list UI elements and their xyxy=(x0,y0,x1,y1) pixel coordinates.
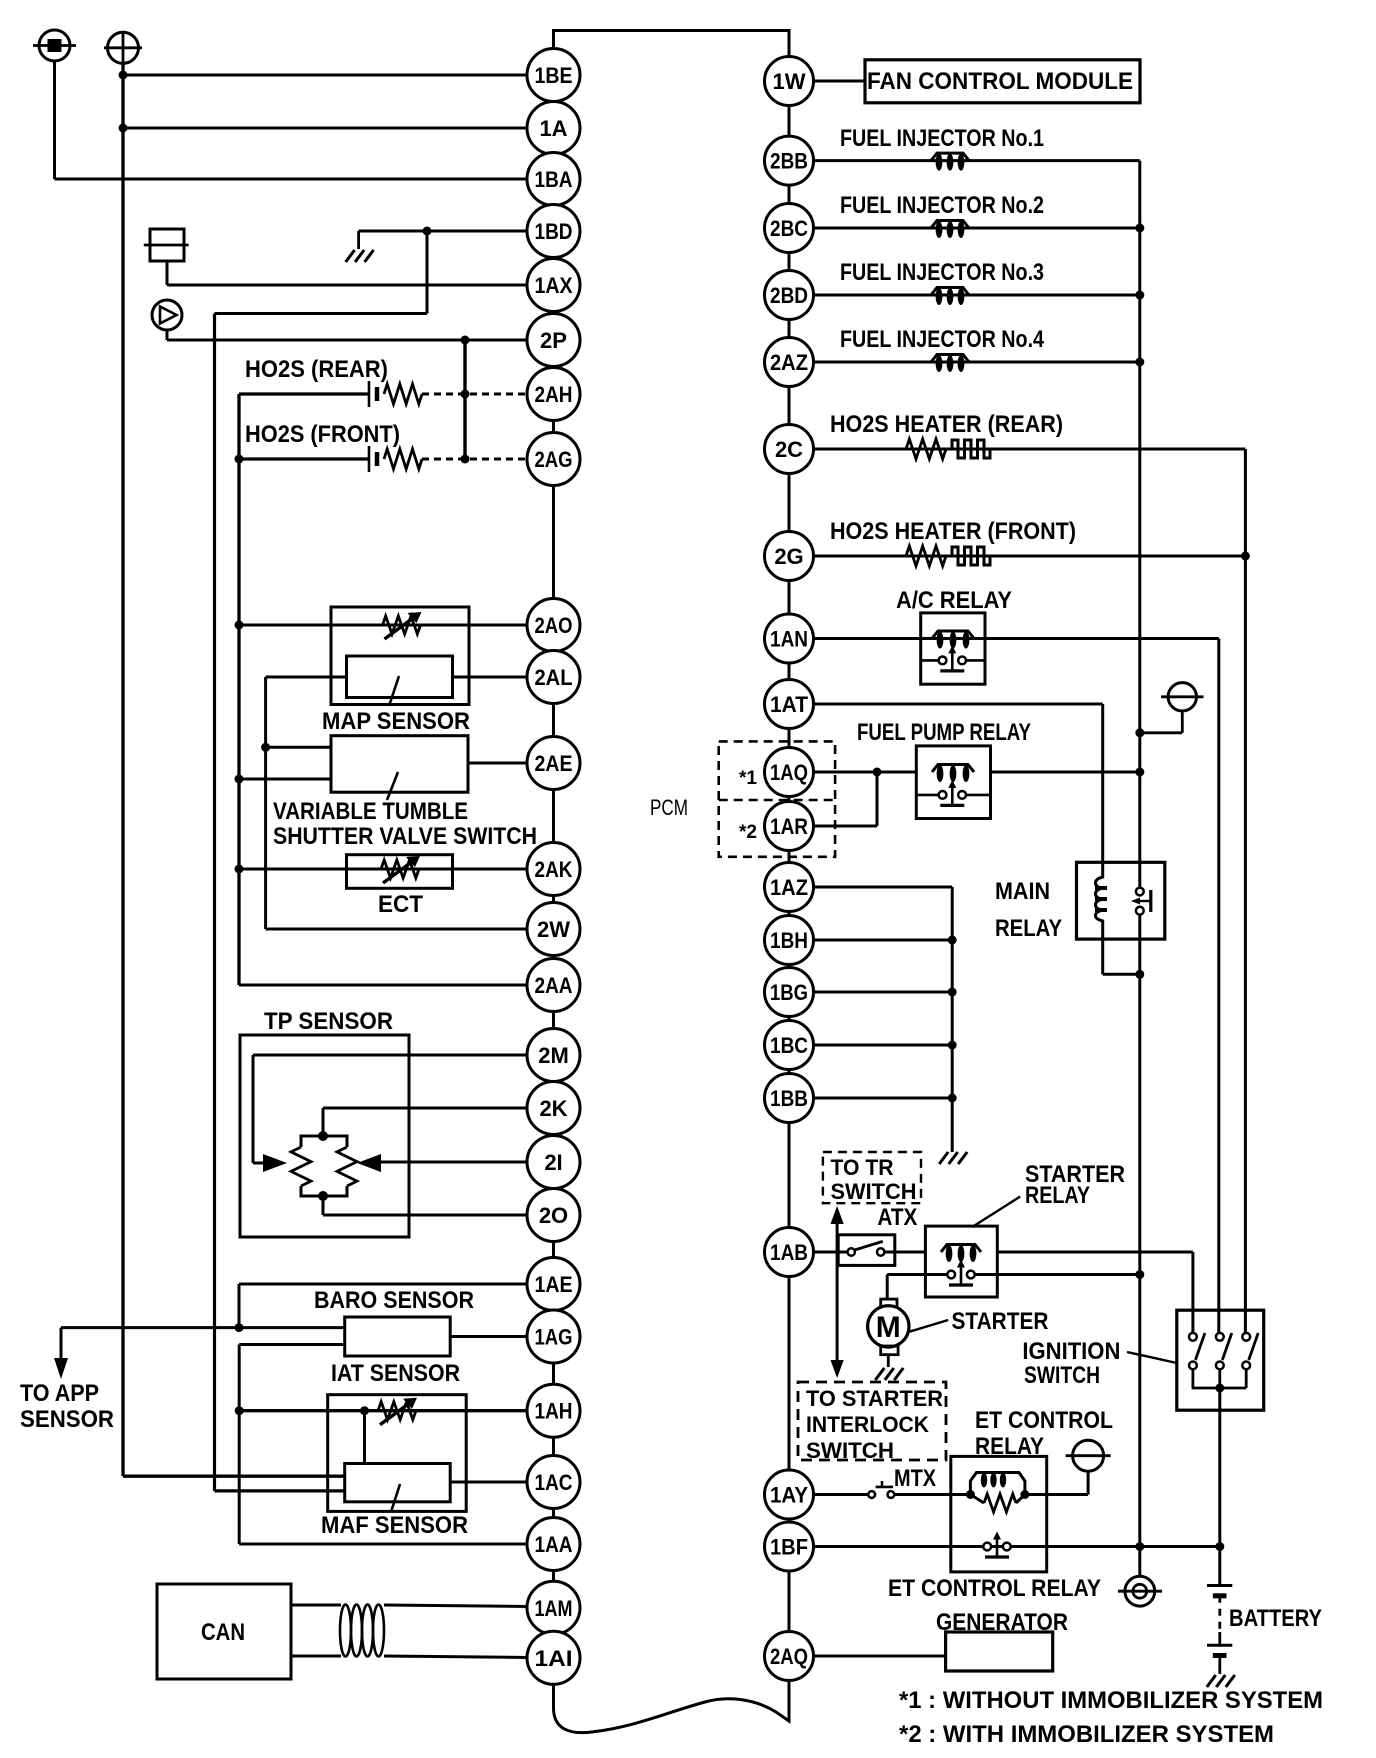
wire starter relay coil to ignition xyxy=(997,1252,1193,1333)
PCM pin 2AK xyxy=(527,843,580,896)
wire 2P xyxy=(167,330,528,340)
svg-text:M: M xyxy=(876,1311,901,1344)
wire 1A xyxy=(123,127,528,130)
svg-text:FUEL INJECTOR No.4: FUEL INJECTOR No.4 xyxy=(840,326,1045,353)
PCM pin 2AQ xyxy=(765,1632,814,1681)
sensor HO2S rear cell xyxy=(239,381,422,407)
PCM pin 1BB xyxy=(765,1074,814,1123)
svg-text:1AB: 1AB xyxy=(770,1240,808,1265)
svg-text:INTERLOCK: INTERLOCK xyxy=(806,1412,929,1437)
svg-text:FAN CONTROL MODULE: FAN CONTROL MODULE xyxy=(867,68,1133,95)
battery BATT xyxy=(1207,1586,1232,1675)
junction dot 1BF/battery xyxy=(1215,1542,1224,1551)
wire 2AO xyxy=(239,624,528,627)
CAN module box xyxy=(157,1584,291,1679)
junction dot ET coil right xyxy=(1020,1490,1029,1499)
svg-text:SENSOR: SENSOR xyxy=(20,1406,114,1433)
ET relay coil and resistor xyxy=(970,1473,1025,1513)
junction dot IAT/MAF xyxy=(360,1406,369,1415)
junction dot fuel pump/B+ bus xyxy=(1135,768,1144,777)
thermistor ECT xyxy=(381,856,420,883)
PCM pin 1A xyxy=(527,102,580,155)
wire 2AG dashed xyxy=(422,458,528,461)
svg-text:1AN: 1AN xyxy=(770,627,808,652)
junction dot ignition common xyxy=(1215,1384,1224,1393)
junction dot bus/VTSV xyxy=(235,775,244,784)
svg-text:2P: 2P xyxy=(540,328,567,353)
MAF sensor inner box xyxy=(345,1464,451,1513)
dashed option box *1 around 1AQ xyxy=(719,741,835,856)
PCM pin 2C xyxy=(765,425,814,474)
junction dot 2W branch xyxy=(261,743,270,752)
svg-text:RELAY: RELAY xyxy=(995,915,1062,942)
junction dot 1AE/BARO xyxy=(235,1323,244,1332)
PCM pin 1AT xyxy=(765,680,814,729)
svg-text:1A: 1A xyxy=(539,116,567,141)
svg-text:*1 : WITHOUT IMMOBILIZER SYSTE: *1 : WITHOUT IMMOBILIZER SYSTEM xyxy=(899,1687,1323,1714)
arrow down to starter interlock switch xyxy=(831,1360,844,1378)
wire 1AT xyxy=(814,704,1103,863)
injector coil FUEL INJECTOR No.4 xyxy=(814,355,1140,373)
callout ignition switch xyxy=(1127,1352,1177,1363)
svg-text:PCM: PCM xyxy=(650,795,688,820)
PCM pin 1BC xyxy=(765,1021,814,1070)
junction dot 1BF/B+ bus xyxy=(1135,1542,1144,1551)
junction dot 1BE/bus xyxy=(119,71,128,80)
TP sensor box xyxy=(240,1035,409,1237)
PCM pin 1BE xyxy=(527,49,580,102)
ECT sensor box xyxy=(347,855,453,889)
svg-text:ET CONTROL: ET CONTROL xyxy=(975,1407,1113,1434)
battery feed symbol ET relay xyxy=(1066,1440,1111,1471)
svg-text:2O: 2O xyxy=(539,1203,568,1228)
PCM pin 1BF xyxy=(765,1522,814,1571)
fuel pump relay U2 xyxy=(916,746,1140,819)
PCM pin 2AA xyxy=(527,959,580,1012)
injector coil FUEL INJECTOR No.3 xyxy=(814,288,1140,306)
junction dot main relay/B+ bus xyxy=(1135,970,1144,979)
MAP sensor inner box xyxy=(347,656,453,706)
svg-text:FUEL PUMP RELAY: FUEL PUMP RELAY xyxy=(857,719,1031,746)
dashed box TO STARTER INTERLOCK SWITCH xyxy=(798,1382,946,1460)
PCM pin 1AY xyxy=(765,1470,814,1519)
wire 1BH xyxy=(814,939,953,942)
svg-text:HO2S (FRONT): HO2S (FRONT) xyxy=(245,421,400,448)
PCM pin 2P xyxy=(527,314,580,367)
svg-text:ET CONTROL RELAY: ET CONTROL RELAY xyxy=(888,1575,1101,1602)
PCM pin 1AH xyxy=(527,1384,580,1437)
battery feed symbol B+ right xyxy=(104,32,142,63)
wire 1BA xyxy=(55,178,528,181)
wire 1AX xyxy=(167,261,528,285)
fan control module box xyxy=(865,60,1140,103)
svg-text:2AE: 2AE xyxy=(535,751,573,776)
svg-text:*1: *1 xyxy=(739,768,757,789)
dashed option box divider xyxy=(719,799,835,802)
svg-text:FUEL INJECTOR No.1: FUEL INJECTOR No.1 xyxy=(840,125,1044,152)
svg-text:2AZ: 2AZ xyxy=(770,350,808,375)
svg-text:SWITCH: SWITCH xyxy=(1024,1362,1100,1389)
thermistor IAT xyxy=(378,1398,417,1425)
svg-text:2G: 2G xyxy=(774,544,803,569)
svg-text:BARO SENSOR: BARO SENSOR xyxy=(314,1287,474,1314)
TP potentiometer xyxy=(291,1136,357,1196)
svg-text:1W: 1W xyxy=(773,69,806,94)
junction dot starter contact/B+ bus xyxy=(1135,1270,1144,1279)
svg-text:2AK: 2AK xyxy=(535,857,573,882)
svg-text:2K: 2K xyxy=(539,1096,567,1121)
svg-text:2BD: 2BD xyxy=(770,283,808,308)
PCM pin 2BC xyxy=(765,204,814,253)
wire PCM ground bus xyxy=(951,887,954,1152)
svg-text:1AZ: 1AZ xyxy=(770,875,808,900)
main relay U3 xyxy=(1077,862,1165,939)
ignition switch box xyxy=(1177,1310,1264,1410)
PCM pin 1BA xyxy=(527,153,580,206)
heater HO2S rear xyxy=(814,439,1246,459)
junction dot TP bottom node xyxy=(318,1191,328,1201)
svg-text:1AG: 1AG xyxy=(535,1325,573,1350)
svg-text:IGNITION: IGNITION xyxy=(1022,1338,1120,1365)
junction dot ET coil left xyxy=(966,1490,975,1499)
PCM pin 1W xyxy=(765,57,814,106)
wire BARO lower to 1AA xyxy=(239,1345,527,1545)
svg-text:FUEL INJECTOR No.3: FUEL INJECTOR No.3 xyxy=(840,259,1044,286)
svg-text:A/C RELAY: A/C RELAY xyxy=(896,587,1012,614)
svg-text:1AA: 1AA xyxy=(535,1532,573,1557)
wire 1AZ xyxy=(814,886,953,889)
wire PCM left connector chain xyxy=(552,49,555,1684)
ground chassis battery xyxy=(1207,1675,1235,1687)
ignition switch poles xyxy=(1189,1333,1258,1388)
svg-text:1BG: 1BG xyxy=(770,980,808,1005)
injector coil FUEL INJECTOR No.1 xyxy=(814,153,1140,171)
junction dot 1BH xyxy=(948,936,957,945)
PCM pin 1BH xyxy=(765,916,814,965)
wire 2AQ xyxy=(813,1655,946,1658)
callout starter xyxy=(909,1320,948,1332)
junction dot 1BD branch xyxy=(423,227,432,236)
heater HO2S front xyxy=(814,546,1246,566)
wire 2AK xyxy=(239,868,528,871)
PCM pin 2AL xyxy=(527,651,580,704)
PCM pin 2M xyxy=(527,1029,580,1082)
svg-text:1AX: 1AX xyxy=(535,273,573,298)
junction dot bus/2AK xyxy=(235,865,244,874)
svg-text:RELAY: RELAY xyxy=(1025,1182,1090,1209)
wire sensor ground bus xyxy=(237,394,240,985)
PCM pin 2AZ xyxy=(765,338,814,387)
svg-text:SWITCH: SWITCH xyxy=(806,1438,894,1463)
wire 1AC xyxy=(450,1481,527,1484)
connector symbol on 1AX line xyxy=(144,229,189,261)
PCM pin 1AZ xyxy=(765,863,814,912)
svg-text:VARIABLE TUMBLE: VARIABLE TUMBLE xyxy=(273,798,468,825)
svg-text:1AC: 1AC xyxy=(535,1470,573,1495)
svg-text:1BB: 1BB xyxy=(770,1086,808,1111)
wire 2K xyxy=(323,1108,528,1136)
svg-text:2AO: 2AO xyxy=(535,613,573,638)
wire 1BG xyxy=(814,991,953,994)
wire 1BE xyxy=(123,74,528,77)
junction dot 1BB xyxy=(948,1094,957,1103)
svg-text:2AH: 2AH xyxy=(535,382,573,407)
svg-text:TO APP: TO APP xyxy=(20,1380,99,1407)
svg-text:MAP SENSOR: MAP SENSOR xyxy=(322,708,470,735)
wire 2AA xyxy=(239,984,528,987)
svg-text:1AM: 1AM xyxy=(535,1596,573,1621)
wire ET relay to feed symbol xyxy=(1025,1470,1088,1495)
wire starter relay contact to B+ bus xyxy=(974,1273,1139,1276)
ATX switch box xyxy=(838,1235,895,1266)
wire 1AI to 2AQ curve xyxy=(554,1681,790,1733)
wire 2AE xyxy=(468,762,528,765)
PCM pin 2BD xyxy=(765,271,814,320)
PCM pin 1AM xyxy=(527,1581,580,1634)
junction dot injector 3/B+ bus xyxy=(1135,291,1144,300)
wire 2AL xyxy=(453,676,528,679)
wire IAT to MAF xyxy=(363,1411,366,1464)
svg-text:SWITCH: SWITCH xyxy=(831,1179,917,1204)
PCM pin 1AX xyxy=(527,259,580,312)
wire 1AR xyxy=(814,772,878,826)
ground chassis starter xyxy=(875,1368,903,1380)
svg-text:1BA: 1BA xyxy=(535,167,573,192)
PCM pin 1AB xyxy=(765,1228,814,1277)
A/C relay contact xyxy=(939,645,966,671)
wire 2I xyxy=(381,1161,528,1164)
dashed box TO TR SWITCH xyxy=(823,1152,921,1203)
wire MTX to ET relay xyxy=(894,1493,970,1496)
junction dot 1AQ/1AR xyxy=(873,768,882,777)
injector coil FUEL INJECTOR No.2 xyxy=(814,221,1140,239)
arrow up to TR switch xyxy=(831,1206,844,1224)
fuel pump relay contact xyxy=(939,780,966,806)
IAT sensor outer box xyxy=(328,1395,467,1512)
PCM pin 1AN xyxy=(765,614,814,663)
shield ground symbol B+ bus end xyxy=(1118,1576,1162,1606)
wire HO2S signal vertical xyxy=(463,340,466,459)
svg-text:ATX: ATX xyxy=(877,1204,917,1231)
starter relay U4 xyxy=(925,1226,997,1297)
svg-text:1BF: 1BF xyxy=(770,1535,808,1560)
svg-text:1AQ: 1AQ xyxy=(770,760,808,785)
PCM pin 1AQ xyxy=(765,748,814,797)
junction dot injector 2/B+ bus xyxy=(1135,224,1144,233)
svg-text:ECT: ECT xyxy=(378,891,423,918)
svg-text:2C: 2C xyxy=(775,437,803,462)
svg-text:1BE: 1BE xyxy=(535,63,573,88)
PCM pin 2AE xyxy=(527,737,580,790)
junction dot B+ bus/feed symbol xyxy=(1135,728,1144,737)
wire 1AB xyxy=(812,1251,848,1254)
wire 1AY xyxy=(814,1493,869,1496)
junction dot 1AH branch xyxy=(235,1406,244,1415)
battery feed symbol near main relay xyxy=(1140,683,1204,733)
A/C relay U1 xyxy=(921,613,985,684)
PCM pin 2I xyxy=(527,1136,580,1189)
svg-text:1AR: 1AR xyxy=(770,814,808,839)
wire main relay coil to bus xyxy=(1103,939,1140,974)
wire 1BF xyxy=(812,1545,1220,1548)
battery feed symbol B+ left xyxy=(33,30,76,61)
ET relay contact xyxy=(983,1532,1010,1558)
wire 1AE xyxy=(239,1284,528,1328)
svg-text:MAF SENSOR: MAF SENSOR xyxy=(321,1512,468,1539)
junction dot TP top node xyxy=(318,1131,328,1141)
junction dot 2AG xyxy=(461,455,470,464)
wire to APP sensor xyxy=(61,1328,239,1360)
junction dot bus/2AO xyxy=(235,621,244,630)
svg-text:MTX: MTX xyxy=(894,1465,936,1492)
wire 2O xyxy=(323,1196,528,1215)
svg-text:TO STARTER: TO STARTER xyxy=(806,1386,943,1411)
wire 1AG xyxy=(450,1335,527,1338)
variable tumble shutter valve switch box xyxy=(331,736,468,800)
svg-text:HO2S (REAR): HO2S (REAR) xyxy=(245,356,388,383)
svg-text:2AQ: 2AQ xyxy=(770,1644,808,1669)
pump symbol on 2P line xyxy=(152,300,182,330)
junction dot bus/HO2S front xyxy=(235,455,244,464)
svg-text:2M: 2M xyxy=(538,1043,569,1068)
svg-text:FUEL INJECTOR No.2: FUEL INJECTOR No.2 xyxy=(840,192,1044,219)
svg-text:2W: 2W xyxy=(537,917,570,942)
wire 2W xyxy=(266,928,528,931)
starter relay contact xyxy=(947,1260,974,1286)
PCM pin 1AA xyxy=(527,1518,580,1571)
wire vertical bus from B+ down to MAF sensor xyxy=(123,63,345,1476)
wire 2M xyxy=(253,1055,528,1163)
wire VTSV lower feed xyxy=(239,778,331,781)
PCM pin 1AE xyxy=(527,1258,580,1311)
svg-text:2BC: 2BC xyxy=(770,216,808,241)
wire 1BD xyxy=(359,230,528,233)
svg-text:TP SENSOR: TP SENSOR xyxy=(264,1008,393,1035)
wire ignition feed right vertical xyxy=(1244,449,1247,1333)
svg-text:2AG: 2AG xyxy=(535,447,573,472)
starter motor M xyxy=(868,1299,909,1367)
wire B+ left down to 1BA wire xyxy=(53,61,56,179)
PCM pin 1AC xyxy=(527,1456,580,1509)
svg-text:TO TR: TO TR xyxy=(831,1155,894,1180)
svg-text:BATTERY: BATTERY xyxy=(1229,1605,1322,1632)
MTX switch xyxy=(868,1481,894,1498)
wire 1BD branch to left vertical bus xyxy=(215,231,428,1491)
svg-text:2BB: 2BB xyxy=(770,149,808,174)
svg-text:CAN: CAN xyxy=(201,1619,245,1646)
svg-text:2AA: 2AA xyxy=(535,973,573,998)
PCM pin 2AH xyxy=(527,368,580,421)
wire VTSV upper feed xyxy=(266,746,331,749)
PCM pin 1AR xyxy=(765,802,814,851)
junction dot 1A/bus xyxy=(119,124,128,133)
PCM pin 1AG xyxy=(527,1310,580,1363)
arrow TP wiper right xyxy=(357,1154,381,1172)
wire PCM right connector chain xyxy=(788,58,791,1680)
svg-text:STARTER: STARTER xyxy=(952,1308,1049,1335)
svg-text:IAT SENSOR: IAT SENSOR xyxy=(331,1360,460,1387)
junction dot HO2S front/ignition feed xyxy=(1241,552,1250,561)
wire TR switch tap xyxy=(836,1222,839,1360)
PCM pin 2AG xyxy=(527,433,580,486)
junction dot 2P/HO2S vertical xyxy=(461,336,470,345)
wire MAP inner to 2W xyxy=(266,677,347,929)
wire 1BB xyxy=(814,1097,953,1100)
wire main B+ bus vertical xyxy=(1138,161,1141,1577)
wire BARO upper feed xyxy=(239,1326,345,1329)
junction dot 1BC xyxy=(948,1041,957,1050)
wire ignition feed mid vertical xyxy=(1217,639,1220,1333)
arrow TP wiper left xyxy=(263,1154,287,1172)
ET control relay box xyxy=(951,1456,1047,1572)
svg-text:*2: *2 xyxy=(739,822,757,843)
callout starter relay xyxy=(972,1197,1020,1228)
generator box xyxy=(946,1632,1053,1671)
BARO sensor box xyxy=(345,1317,451,1356)
ground chassis 1BD xyxy=(346,231,374,262)
svg-text:SHUTTER VALVE SWITCH: SHUTTER VALVE SWITCH xyxy=(273,823,537,850)
ATX switch xyxy=(848,1241,885,1255)
MAP sensor outer box xyxy=(331,607,469,705)
svg-text:1AH: 1AH xyxy=(535,1399,573,1424)
wire 1AQ xyxy=(814,771,917,774)
svg-text:MAIN: MAIN xyxy=(995,878,1050,905)
twisted pair coil CAN xyxy=(291,1605,528,1658)
junction dot 2AH xyxy=(461,390,470,399)
arrow to APP sensor xyxy=(54,1358,68,1379)
PCM pin 2W xyxy=(527,903,580,956)
PCM pin 2K xyxy=(527,1082,580,1135)
wire 2AH dashed xyxy=(422,393,528,396)
wire ignition to battery xyxy=(1218,1388,1221,1586)
wire starter relay to starter motor xyxy=(887,1275,947,1300)
PCM pin 2BB xyxy=(765,136,814,185)
svg-text:HO2S HEATER (REAR): HO2S HEATER (REAR) xyxy=(830,411,1063,438)
svg-text:1AI: 1AI xyxy=(535,1646,573,1671)
PCM pin 1BG xyxy=(765,968,814,1017)
wire 1W xyxy=(814,80,866,83)
PCM pin 1AI xyxy=(527,1631,580,1684)
main relay contact xyxy=(1131,888,1151,915)
svg-text:1BD: 1BD xyxy=(535,219,573,244)
PCM pin 1BD xyxy=(527,205,580,258)
PCM pin 2O xyxy=(527,1189,580,1242)
wire 1BC xyxy=(814,1044,953,1047)
svg-text:1BH: 1BH xyxy=(770,928,808,953)
svg-text:*2 : WITH IMMOBILIZER SYSTEM: *2 : WITH IMMOBILIZER SYSTEM xyxy=(899,1721,1274,1748)
wire 1AH xyxy=(239,1409,527,1412)
svg-text:1AT: 1AT xyxy=(770,692,809,717)
svg-text:1AE: 1AE xyxy=(535,1272,573,1297)
svg-text:2AL: 2AL xyxy=(535,665,573,690)
PCM pin 2AO xyxy=(527,599,580,652)
thermistor in MAP sensor xyxy=(383,612,422,639)
svg-text:1AY: 1AY xyxy=(770,1483,808,1508)
svg-text:2I: 2I xyxy=(544,1150,562,1175)
PCM pin 2G xyxy=(765,532,814,581)
svg-text:HO2S HEATER (FRONT): HO2S HEATER (FRONT) xyxy=(830,518,1076,545)
junction dot injector 4/B+ bus xyxy=(1135,358,1144,367)
ground chassis PCM bus xyxy=(939,1152,967,1164)
wire 1AN xyxy=(814,637,1219,640)
sensor HO2S front cell xyxy=(239,446,422,472)
wire ATX to starter relay xyxy=(884,1251,925,1254)
svg-text:1BC: 1BC xyxy=(770,1033,808,1058)
junction dot 1BG xyxy=(948,988,957,997)
wire top bracket 1BE to 1W xyxy=(554,31,790,59)
